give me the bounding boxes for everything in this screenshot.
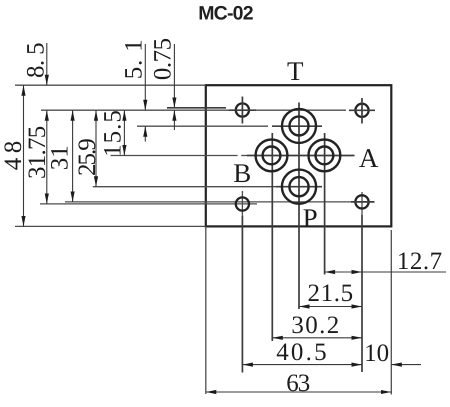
dimension 63 (206, 370, 391, 397)
svg-text:48: 48 (0, 136, 27, 170)
svg-text:5. 1: 5. 1 (120, 39, 147, 80)
svg-text:12.7: 12.7 (397, 248, 443, 275)
bolt hole top-right (349, 98, 375, 124)
bolt hole top-left (229, 97, 256, 124)
svg-text:MC-02: MC-02 (198, 3, 253, 25)
dimension 40.5 (242, 339, 362, 366)
dimension 48 (0, 85, 27, 226)
svg-text:31: 31 (47, 145, 74, 170)
plate top edge extension line (15, 84, 206, 86)
port A (309, 140, 341, 172)
ports B-A centerline (horizontal) (111, 155, 238, 157)
plate right edge extension (390, 230, 392, 395)
svg-text:0.75: 0.75 (150, 38, 177, 80)
port B vertical centerline (271, 133, 273, 341)
bolt-hole row centerline (bottom right) (65, 201, 375, 203)
dimension 8.5 (23, 43, 50, 85)
bolt hole right column extension (361, 192, 363, 215)
svg-text:8. 5: 8. 5 (23, 43, 50, 78)
bolt hole left column extension (241, 191, 243, 216)
bolt hole bottom-right (351, 195, 375, 208)
dimension 0.75 (150, 38, 177, 130)
port P (282, 170, 316, 204)
0.75 reference line (167, 107, 226, 109)
dimension 12.7 (325, 248, 446, 275)
dimension 10 (364, 340, 421, 367)
dimension 5.1 (120, 39, 147, 142)
port A vertical centerline (324, 133, 326, 275)
svg-text:21.5: 21.5 (308, 280, 354, 307)
svg-text:25.9: 25.9 (74, 139, 101, 176)
svg-text:B: B (233, 158, 251, 188)
dimension 30.2 (272, 312, 362, 339)
dimension 21.5 (299, 280, 362, 307)
port T centerline (horizontal) (137, 125, 268, 127)
plate bottom edge extension line (15, 225, 206, 227)
svg-text:40.5: 40.5 (276, 339, 329, 366)
port B (256, 140, 288, 172)
plate outline (206, 85, 391, 226)
svg-text:A: A (359, 143, 379, 173)
svg-text:15.5: 15.5 (100, 109, 127, 157)
svg-text:30.2: 30.2 (291, 312, 340, 339)
svg-text:T: T (287, 56, 304, 86)
port P centerline (horizontal) (93, 186, 276, 188)
port T (282, 109, 316, 143)
svg-text:10: 10 (364, 340, 389, 367)
dimension 31 (47, 110, 74, 202)
svg-text:P: P (303, 203, 318, 233)
dimension 31.75 (24, 110, 51, 204)
ports T-P vertical centerline (298, 103, 300, 310)
bolt-hole row centerline (top) (41, 109, 346, 111)
dimension 15.5 (100, 109, 127, 157)
ports B-A centerline (continued) (241, 155, 247, 157)
dimension 25.9 (74, 110, 101, 187)
bolt hole bottom-left (236, 197, 249, 210)
svg-text:63: 63 (286, 370, 310, 397)
bolt-hole row centerline (bottom left) (40, 203, 257, 205)
plate left edge extension (205, 226, 207, 394)
